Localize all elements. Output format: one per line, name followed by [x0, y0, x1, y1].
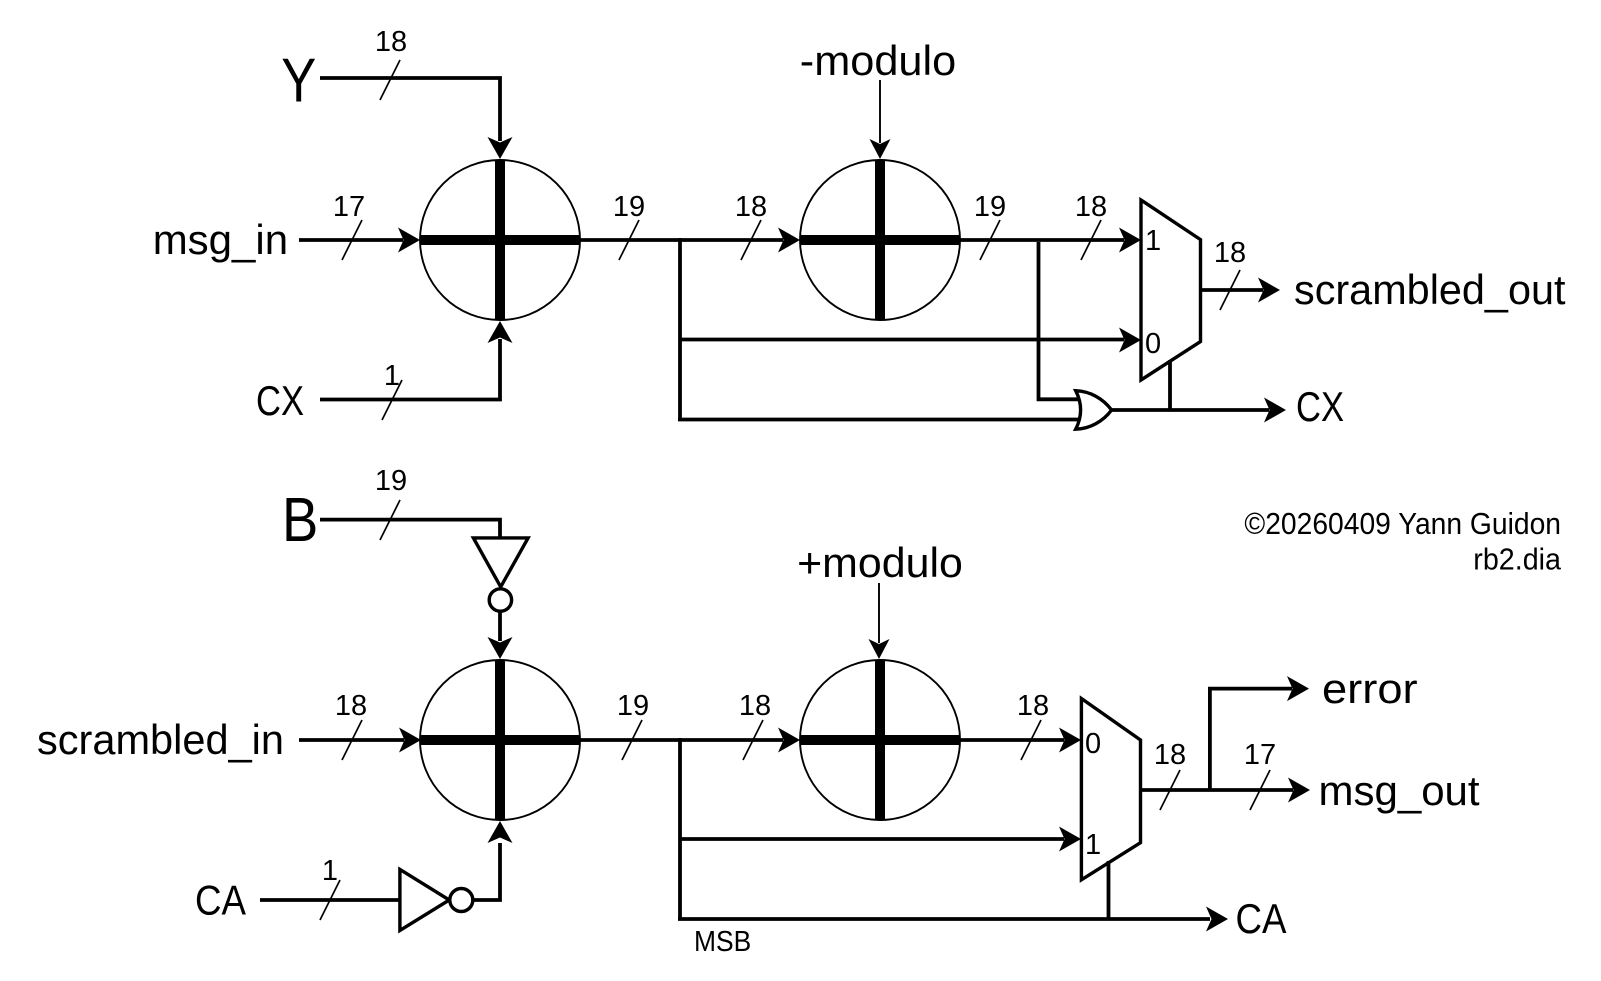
- inverter V1 (B, pointing down): [473, 538, 528, 611]
- svg-text:0: 0: [1085, 728, 1101, 760]
- wire scrambled_in to adder U4: [299, 728, 421, 753]
- inverter V2 (CA, pointing right): [400, 869, 473, 930]
- svg-text:rb2.dia: rb2.dia: [1473, 542, 1561, 577]
- wire U2 output to mux M1 input 1: [960, 228, 1141, 253]
- wire branch to OR gate lower input: [678, 418, 1086, 422]
- wire +modulo to adder U5: [869, 583, 890, 659]
- wire M1 output to scrambled_out: [1201, 278, 1281, 303]
- svg-text:18: 18: [1154, 739, 1186, 771]
- svg-text:1: 1: [322, 855, 338, 887]
- wire U1 output to adder U2: [580, 228, 800, 253]
- wire msg_in to adder U1: [299, 228, 420, 253]
- bus width 18 before M1: [1075, 191, 1107, 260]
- bus width 18 after U5: [1017, 690, 1049, 760]
- bus width 1 on CA: [320, 855, 340, 920]
- adder U4: [420, 660, 580, 820]
- svg-text:-modulo: -modulo: [800, 37, 956, 84]
- wire U5 output to mux M2 input 0: [960, 728, 1081, 753]
- wire branch up to error: [1210, 676, 1309, 790]
- wire V2 to adder U4: [473, 821, 513, 900]
- bus width 17 before msg_out: [1244, 739, 1276, 810]
- svg-text:1: 1: [1145, 225, 1161, 257]
- svg-text:18: 18: [1214, 237, 1246, 269]
- svg-text:msg_in: msg_in: [153, 216, 288, 263]
- or gate U3: [1076, 391, 1112, 430]
- wire CX to adder U1: [320, 321, 513, 400]
- svg-text:19: 19: [617, 690, 649, 722]
- mux M2: [1081, 699, 1140, 880]
- svg-text:B: B: [282, 486, 318, 555]
- bus width 19 after U2: [974, 191, 1006, 260]
- svg-text:17: 17: [1244, 739, 1276, 771]
- wire M1 select to CX net: [1168, 360, 1172, 410]
- adder U1: [420, 160, 580, 320]
- bus width 18 before U5: [739, 690, 771, 760]
- svg-text:19: 19: [375, 465, 407, 497]
- svg-text:scrambled_out: scrambled_out: [1294, 266, 1566, 313]
- svg-text:18: 18: [1075, 191, 1107, 223]
- wire M2 select to CA net: [1107, 861, 1111, 919]
- svg-text:error: error: [1322, 665, 1418, 712]
- svg-text:CX: CX: [256, 377, 304, 424]
- svg-text:18: 18: [739, 690, 771, 722]
- svg-text:18: 18: [375, 26, 407, 58]
- svg-text:0: 0: [1145, 328, 1161, 360]
- svg-text:©20260409 Yann Guidon: ©20260409 Yann Guidon: [1244, 506, 1561, 541]
- wire CA to inverter V2: [260, 898, 400, 902]
- svg-text:CA: CA: [1236, 895, 1287, 942]
- svg-text:Y: Y: [281, 47, 316, 116]
- svg-text:+modulo: +modulo: [797, 539, 963, 586]
- svg-text:19: 19: [613, 191, 645, 223]
- svg-text:MSB: MSB: [694, 926, 751, 958]
- svg-text:18: 18: [735, 191, 767, 223]
- bus width 18 before U2: [735, 191, 767, 260]
- adder U2: [800, 160, 960, 320]
- wire M2 output to msg_out: [1141, 778, 1311, 803]
- wire branch to mux M2 input 1: [680, 827, 1081, 852]
- wire -modulo to adder U2: [870, 80, 891, 159]
- wire branch to CA output: [678, 907, 1228, 932]
- wire branch from U4 output down: [678, 738, 682, 919]
- bus width 18 after M1: [1214, 237, 1246, 310]
- bus width 19 after U4: [617, 690, 649, 760]
- svg-text:18: 18: [1017, 690, 1049, 722]
- bus width 19 on B: [375, 465, 407, 540]
- svg-text:msg_out: msg_out: [1319, 767, 1480, 814]
- wire OR output to CX output: [1111, 398, 1286, 423]
- adder U5: [800, 660, 960, 820]
- svg-text:17: 17: [333, 191, 365, 223]
- wire V1 to adder U4: [488, 611, 513, 659]
- bus width 18 after M2: [1154, 739, 1186, 810]
- bus width 19 after U1: [613, 191, 645, 260]
- bus width 17 on msg_in: [333, 191, 365, 260]
- svg-text:CX: CX: [1296, 383, 1344, 430]
- svg-text:1: 1: [1085, 829, 1101, 861]
- svg-text:scrambled_in: scrambled_in: [37, 716, 284, 763]
- wire Y to adder U1: [320, 78, 513, 159]
- wire B to inverter V1: [320, 520, 500, 538]
- mux M1: [1141, 200, 1201, 380]
- wire U4 output to adder U5: [580, 728, 800, 753]
- svg-text:18: 18: [335, 690, 367, 722]
- wire branch from U2 output to OR gate upper input: [1039, 242, 1087, 399]
- bus width 1 on CX: [382, 360, 402, 420]
- bus width 18 on scrambled_in: [335, 690, 367, 760]
- wire branch from U1 output down: [678, 238, 682, 420]
- svg-text:19: 19: [974, 191, 1006, 223]
- wire branch to mux M1 input 0: [680, 328, 1141, 353]
- svg-text:CA: CA: [195, 877, 246, 924]
- bus width 18 on Y: [375, 26, 407, 100]
